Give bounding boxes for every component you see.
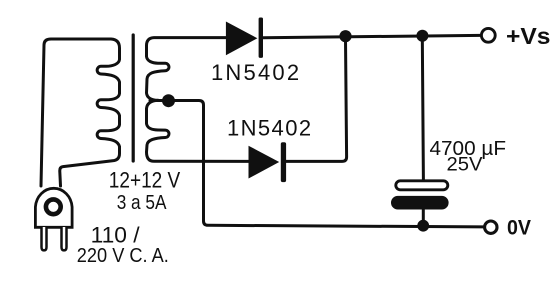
svg-text:3 a 5A: 3 a 5A <box>117 191 167 214</box>
svg-text:25V: 25V <box>447 154 483 176</box>
svg-text:+Vs: +Vs <box>506 23 551 49</box>
svg-text:110 /: 110 / <box>91 223 141 248</box>
svg-text:1N5402: 1N5402 <box>227 116 312 141</box>
svg-text:0V: 0V <box>507 217 531 240</box>
svg-text:12+12 V: 12+12 V <box>109 168 181 193</box>
svg-text:220 V C. A.: 220 V C. A. <box>77 245 169 267</box>
svg-text:1N5402: 1N5402 <box>211 60 301 85</box>
